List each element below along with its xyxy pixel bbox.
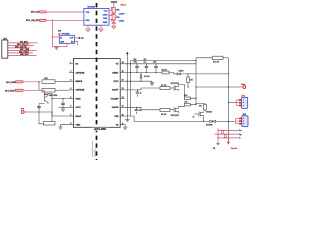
- wire DESAT row: [125, 72, 162, 74]
- svg-text:V DD1: V DD1: [76, 98, 81, 100]
- U2 left pin numbers: [70, 62, 71, 125]
- wire rail x196: [195, 58, 197, 105]
- wire MCU_FAULT to Q5 base: [24, 90, 44, 96]
- ground VE: [123, 127, 127, 129]
- svg-text:MMBT3904: MMBT3904: [49, 95, 57, 97]
- wire D3 to node: [180, 73, 228, 75]
- wire Q3 to stack node: [179, 105, 185, 107]
- XP3 pin wires: [8, 43, 38, 56]
- wire U1 GND2 pin down: [100, 25, 102, 29]
- svg-text:CATHODE: CATHODE: [76, 89, 86, 92]
- transistor Q3 2N7002DW: [174, 106, 179, 113]
- capacitor C11: [146, 63, 147, 64]
- wire U4 EN: [75, 42, 78, 46]
- U2 right pin stubs: [120, 64, 125, 125]
- svg-text:104: 104: [139, 110, 142, 112]
- resistor R14 vertical: [187, 77, 190, 83]
- U2 right pin names: [111, 64, 120, 127]
- svg-text:12: 12: [122, 97, 124, 99]
- svg-text:RXD: RXD: [86, 20, 91, 22]
- svg-text:Vcc2: Vcc2: [104, 11, 108, 13]
- wire divider vertical: [217, 128, 219, 142]
- wire VEE1 row: [61, 125, 70, 127]
- U2 part label: [92, 128, 109, 131]
- svg-text:V CC2: V CC2: [113, 81, 118, 83]
- wire VCC1 row: [59, 106, 70, 108]
- svg-text:BSS138: BSS138: [206, 112, 212, 114]
- svg-text:2N7002DW: 2N7002DW: [171, 83, 180, 85]
- wire MCU_CAN_TXD to U1.TXD: [47, 11, 84, 13]
- diode D3 BZX84: [177, 73, 180, 75]
- ground VCC1 cap: [61, 109, 65, 111]
- svg-text:Vce: Vce: [239, 130, 242, 132]
- wire XP2 feed: [228, 102, 236, 104]
- capacitor C15 on VOUTN row: [136, 107, 137, 108]
- U2 right pin numbers: [122, 62, 124, 125]
- svg-text:TP8: TP8: [21, 108, 24, 110]
- svg-text:CANL: CANL: [103, 17, 108, 20]
- svg-text:R7 10R: R7 10R: [161, 85, 167, 87]
- wire VOUTP row: [125, 88, 160, 90]
- wire Q2 to stack node: [179, 85, 185, 98]
- svg-text:100n: 100n: [134, 62, 138, 64]
- U2 left pin names: [76, 64, 86, 127]
- wire VE bottom pin to ground: [120, 125, 125, 127]
- capacitor C split termination: [112, 21, 116, 23]
- svg-text:V OUTN: V OUTN: [112, 107, 119, 109]
- node CANL: [113, 20, 115, 23]
- diode D5 vertical: [140, 73, 141, 74]
- wire Q5 collector up to VDD1 row: [48, 94, 69, 99]
- resistor R19: [224, 135, 226, 138]
- svg-text:CANH: CANH: [103, 13, 109, 16]
- capacitor C3: [37, 106, 41, 108]
- svg-text:PwrGnd: PwrGnd: [231, 148, 238, 150]
- svg-text:V CC1: V CC1: [76, 107, 81, 109]
- svg-text:MCU_FAULT: MCU_FAULT: [5, 89, 16, 92]
- regulator U4: [59, 35, 74, 43]
- svg-text:Ve: Ve: [239, 138, 241, 140]
- capacitor C12: [155, 63, 156, 64]
- svg-text:14: 14: [122, 80, 124, 82]
- svg-text:MCU_PWM: MCU_PWM: [6, 82, 16, 84]
- capacitor C13 on VCC2: [150, 82, 154, 84]
- svg-text:7: 7: [70, 114, 71, 116]
- resistor R60: [112, 8, 115, 13]
- resistor R13 desat: [162, 71, 169, 74]
- ground CAN termination: [112, 26, 116, 29]
- svg-text:CANL: CANL: [119, 20, 125, 23]
- node CANH: [113, 13, 115, 15]
- svg-text:MCU_CAN_RXD: MCU_CAN_RXD: [26, 19, 40, 22]
- wire U4 gnd loop: [53, 43, 68, 46]
- wire VE row: [125, 63, 196, 65]
- ground lower-left rail: [126, 119, 128, 120]
- svg-text:1: 1: [70, 62, 71, 64]
- svg-text:V OUTP: V OUTP: [112, 90, 119, 92]
- svg-text:15: 15: [122, 71, 124, 73]
- wire MCU_CAN_RXD to U1.RXD: [47, 19, 84, 21]
- gate driver U2 ACPL-339J body: [74, 59, 121, 128]
- svg-text:8: 8: [70, 123, 71, 125]
- wire VCC2 row: [125, 80, 152, 82]
- wire MCU_PWM to R network: [24, 81, 40, 83]
- diode D4 dual BAV99: [208, 120, 216, 122]
- svg-text:13: 13: [122, 88, 124, 90]
- wire VGB row to bottom row: [125, 116, 208, 121]
- wire U4 output with power arrow: [75, 37, 79, 39]
- wire Vcc2 to rail: [109, 8, 114, 11]
- wire U1.CANH: [109, 14, 114, 16]
- power flag down: [227, 142, 230, 145]
- wire R4 to CATHODE: [55, 89, 69, 91]
- svg-text:BZX84: BZX84: [179, 71, 184, 73]
- svg-text:R12 4R7: R12 4R7: [213, 61, 219, 63]
- wire R3 to ANODE: [55, 80, 69, 82]
- svg-text:V EE1: V EE1: [76, 125, 81, 127]
- ground GND2: [99, 29, 103, 32]
- wire into XP5: [228, 120, 234, 122]
- resistor R6 pull-up: [44, 122, 56, 125]
- wire gate row: [196, 86, 243, 88]
- svg-text:100n: 100n: [153, 62, 157, 64]
- svg-text:R13 1K: R13 1K: [162, 69, 168, 71]
- U2 left pin stubs: [69, 64, 74, 125]
- svg-text:3: 3: [70, 80, 71, 82]
- wire second vertical bus: [130, 61, 132, 116]
- svg-text:11: 11: [122, 106, 124, 108]
- wire D4 to right rail: [217, 120, 229, 122]
- svg-text:ANODE: ANODE: [76, 80, 83, 83]
- transistor Q5: [45, 94, 49, 105]
- wire rail top to R12: [196, 57, 212, 59]
- svg-text:FAULT: FAULT: [76, 115, 82, 118]
- XP4 pins: [239, 118, 242, 125]
- capacitor C14 on VOUTP row: [137, 89, 138, 90]
- svg-text:1u: 1u: [140, 92, 142, 94]
- svg-text:CATHODE: CATHODE: [76, 71, 86, 74]
- resistor R7 gate on: [160, 87, 170, 90]
- sense net labels: [239, 130, 242, 140]
- wires R15 R16 to rail: [190, 98, 196, 105]
- wire U4 input: [53, 36, 60, 38]
- ground GND1: [86, 29, 90, 32]
- svg-text:DESAT: DESAT: [112, 71, 119, 74]
- wire R12 to right rail: [223, 57, 228, 59]
- svg-text:5V0_C: 5V0_C: [121, 5, 127, 7]
- svg-text:GND2: GND2: [103, 22, 108, 24]
- resistor R61: [112, 15, 115, 20]
- wire TP8 to FAULT net: [24, 111, 52, 113]
- XP3 net labels: [15, 41, 29, 56]
- svg-text:10u: 10u: [144, 62, 147, 64]
- svg-text:V CLAMP: V CLAMP: [111, 97, 120, 100]
- svg-text:Separation: Separation: [93, 148, 96, 157]
- svg-text:2N7002DW: 2N7002DW: [171, 115, 180, 117]
- ground U4: [56, 47, 58, 48]
- wire VCC2 top row: [131, 60, 196, 62]
- resistor R18: [222, 131, 224, 134]
- svg-text:2: 2: [70, 71, 71, 73]
- isolation barrier dashed line: [96, 3, 98, 160]
- resistor R15: [184, 97, 190, 99]
- capacitor C10: [136, 63, 137, 64]
- transistor Q4: [199, 112, 204, 122]
- svg-text:10: 10: [122, 114, 124, 116]
- svg-text:GND_MCU: GND_MCU: [20, 54, 29, 56]
- wire R13 to D3: [169, 72, 171, 74]
- svg-text:5V0: 5V0: [58, 31, 61, 33]
- wire right rail x228: [227, 58, 229, 142]
- svg-text:CANH: CANH: [119, 13, 125, 16]
- svg-text:5: 5: [70, 97, 71, 99]
- svg-text:TXD: TXD: [86, 12, 90, 14]
- resistor R3: [42, 80, 55, 84]
- svg-text:R8 4R7: R8 4R7: [161, 114, 167, 116]
- resistor R4: [42, 88, 55, 92]
- wire 5V0 feed to U3: [52, 20, 54, 46]
- XP2 pins: [239, 99, 242, 106]
- pull-up loop wiring: [39, 99, 52, 124]
- resistor R16: [184, 104, 190, 106]
- sense rows: [215, 130, 239, 138]
- CAN transceiver U1 ISO1050: [84, 7, 109, 26]
- capacitor C4 on VCC1: [61, 102, 65, 104]
- wire VOUTN row: [125, 107, 160, 110]
- svg-text:6: 6: [70, 106, 71, 108]
- wire VE vertical bus: [126, 56, 128, 118]
- resistor R8 gate off: [160, 108, 170, 111]
- svg-text:MCU_CAN: MCU_CAN: [31, 11, 40, 14]
- power rail 5V0_CAN bar: [111, 1, 117, 3]
- svg-text:16: 16: [122, 62, 124, 64]
- svg-text:ACPL-339J: ACPL-339J: [94, 128, 106, 131]
- power arrow VE rail: [126, 54, 128, 56]
- svg-text:Vge: Vge: [239, 134, 242, 136]
- wire branch to lower resistor: [38, 82, 40, 90]
- ground VEE1: [58, 127, 62, 129]
- resistor R17 vertical: [204, 105, 207, 111]
- svg-text:4: 4: [70, 88, 71, 90]
- wire U1 GND1 pin down: [87, 25, 89, 29]
- wire U1.CANL: [109, 19, 114, 21]
- svg-text:4K7: 4K7: [190, 80, 193, 82]
- resistor R12: [212, 56, 223, 59]
